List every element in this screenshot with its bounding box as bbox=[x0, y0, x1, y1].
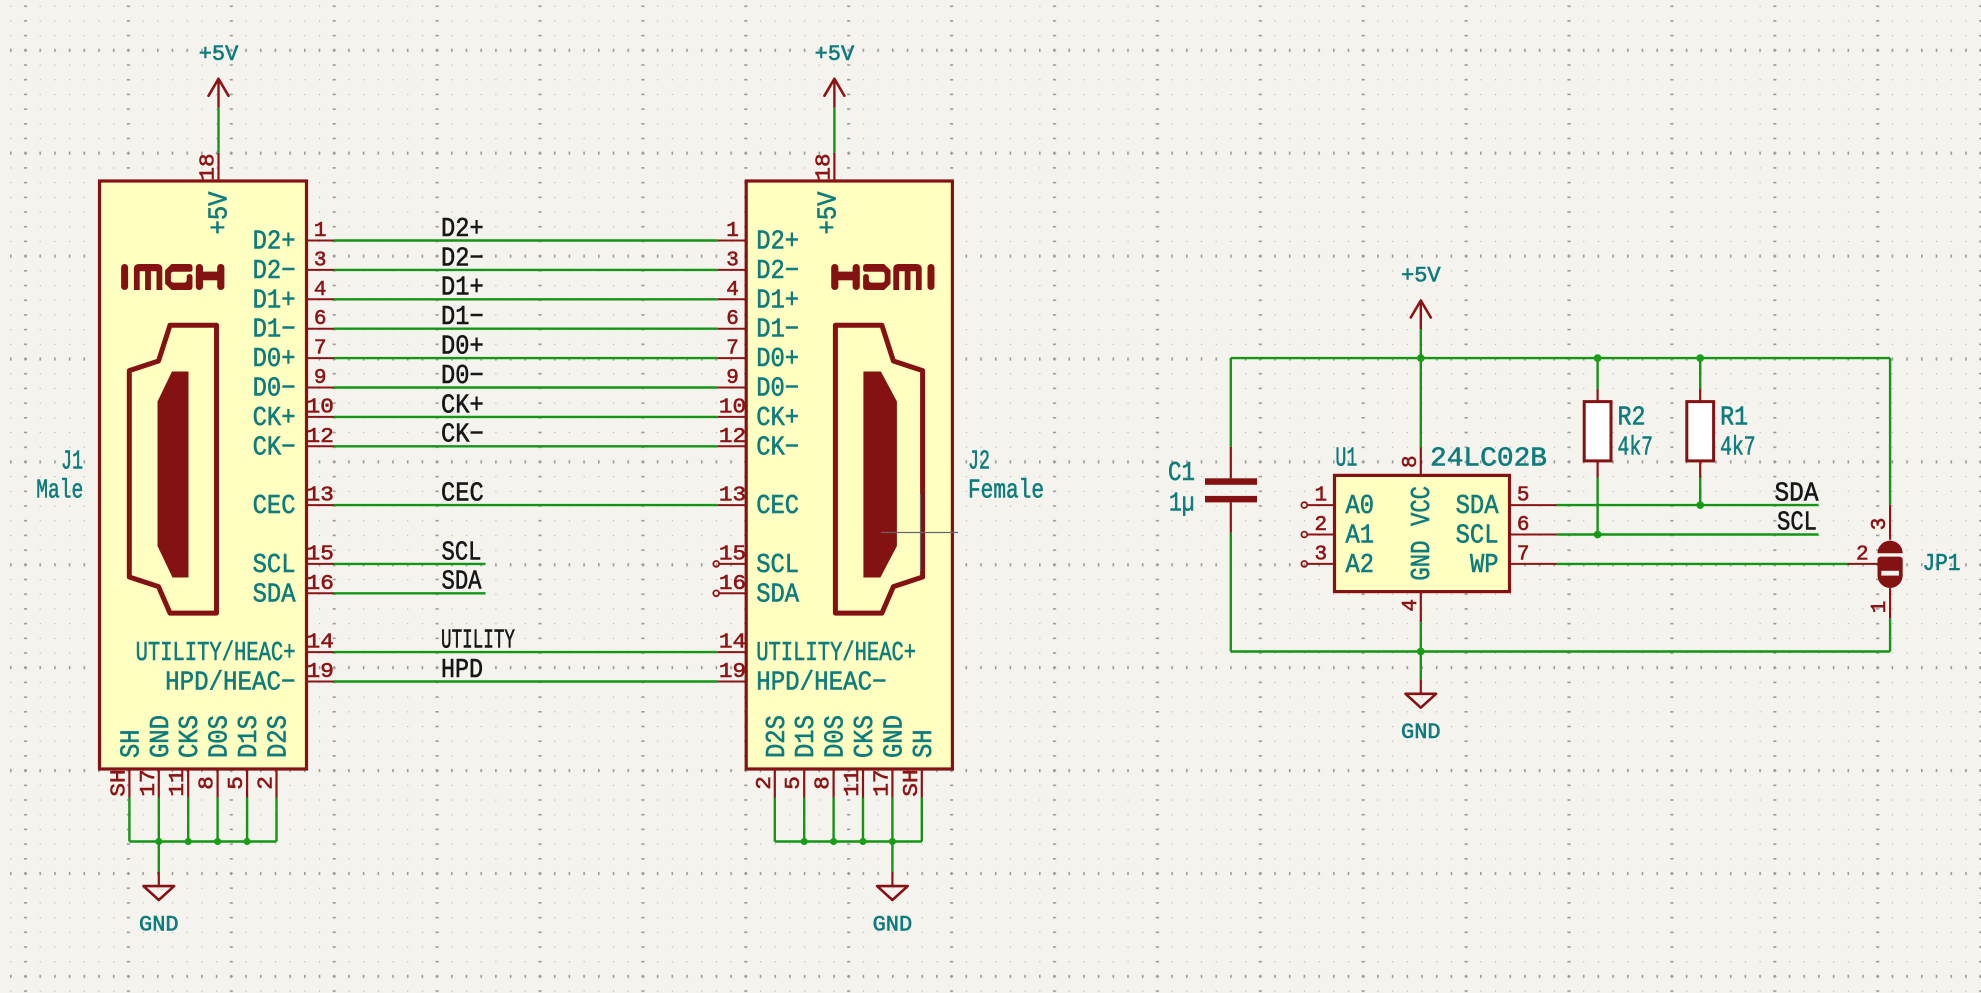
svg-text:Male: Male bbox=[36, 477, 83, 507]
svg-text:SH: SH bbox=[117, 729, 147, 758]
svg-text:15: 15 bbox=[307, 543, 334, 566]
svg-text:R2: R2 bbox=[1618, 404, 1646, 434]
svg-text:VCC: VCC bbox=[1408, 486, 1438, 526]
svg-text:CK−: CK− bbox=[253, 433, 296, 463]
svg-text:6: 6 bbox=[1517, 514, 1530, 537]
svg-text:CEC: CEC bbox=[441, 480, 484, 510]
svg-text:5: 5 bbox=[783, 776, 806, 790]
svg-text:C1: C1 bbox=[1168, 459, 1195, 489]
svg-text:D2S: D2S bbox=[265, 715, 295, 758]
svg-text:JP1: JP1 bbox=[1923, 551, 1961, 578]
svg-text:11: 11 bbox=[842, 769, 865, 796]
svg-text:1µ: 1µ bbox=[1169, 490, 1195, 520]
svg-text:D1+: D1+ bbox=[253, 286, 296, 316]
svg-text:5: 5 bbox=[1517, 485, 1530, 508]
svg-text:4: 4 bbox=[726, 279, 739, 302]
svg-text:16: 16 bbox=[307, 573, 334, 596]
svg-text:24LC02B: 24LC02B bbox=[1430, 444, 1547, 474]
svg-text:GND: GND bbox=[1408, 541, 1438, 581]
svg-text:D0−: D0− bbox=[756, 375, 799, 405]
svg-text:WP: WP bbox=[1470, 551, 1499, 581]
svg-text:CEC: CEC bbox=[253, 492, 296, 522]
svg-text:7: 7 bbox=[1517, 543, 1530, 566]
svg-text:13: 13 bbox=[307, 485, 334, 508]
svg-text:4k7: 4k7 bbox=[1720, 433, 1756, 463]
svg-text:SH: SH bbox=[901, 769, 924, 796]
svg-text:SCL: SCL bbox=[1777, 509, 1817, 539]
svg-text:10: 10 bbox=[307, 396, 334, 419]
svg-text:7: 7 bbox=[314, 338, 327, 361]
svg-text:D1−: D1− bbox=[756, 316, 799, 346]
svg-text:3: 3 bbox=[726, 249, 739, 272]
svg-text:+5V: +5V bbox=[814, 191, 844, 235]
svg-text:4: 4 bbox=[314, 279, 327, 302]
svg-text:2: 2 bbox=[1314, 514, 1327, 537]
svg-text:4: 4 bbox=[1400, 599, 1423, 612]
svg-text:D1+: D1+ bbox=[756, 286, 799, 316]
svg-text:SDA: SDA bbox=[756, 580, 800, 610]
svg-text:A1: A1 bbox=[1346, 522, 1375, 552]
svg-text:6: 6 bbox=[314, 308, 327, 331]
svg-text:CK−: CK− bbox=[756, 433, 799, 463]
svg-text:GND: GND bbox=[880, 715, 910, 758]
svg-text:2: 2 bbox=[754, 776, 777, 790]
svg-text:D0−: D0− bbox=[253, 375, 296, 405]
svg-text:HPD/HEAC−: HPD/HEAC− bbox=[165, 669, 295, 699]
svg-text:HPD: HPD bbox=[441, 656, 483, 686]
svg-text:D2−: D2− bbox=[756, 257, 799, 287]
svg-text:HPD/HEAC−: HPD/HEAC− bbox=[756, 669, 886, 699]
svg-text:8: 8 bbox=[813, 776, 836, 790]
svg-text:D2+: D2+ bbox=[441, 215, 484, 245]
svg-text:8: 8 bbox=[197, 776, 220, 790]
svg-text:10: 10 bbox=[719, 396, 746, 419]
svg-text:D0+: D0+ bbox=[441, 333, 484, 363]
svg-text:D2S: D2S bbox=[763, 715, 793, 758]
svg-text:D0+: D0+ bbox=[253, 345, 296, 375]
svg-text:18: 18 bbox=[813, 153, 836, 180]
svg-text:SH: SH bbox=[108, 769, 131, 796]
svg-text:1: 1 bbox=[1314, 485, 1327, 508]
svg-text:17: 17 bbox=[871, 769, 894, 796]
svg-text:2: 2 bbox=[1856, 543, 1869, 566]
svg-text:13: 13 bbox=[719, 485, 746, 508]
svg-text:SH: SH bbox=[910, 729, 940, 758]
svg-text:UTILITY/HEAC+: UTILITY/HEAC+ bbox=[756, 639, 916, 669]
svg-text:D0S: D0S bbox=[206, 715, 236, 758]
svg-text:D0−: D0− bbox=[441, 362, 484, 392]
svg-text:D1S: D1S bbox=[792, 715, 822, 758]
svg-text:D2+: D2+ bbox=[253, 228, 296, 258]
svg-text:+5V: +5V bbox=[206, 191, 236, 235]
svg-text:SCL: SCL bbox=[442, 538, 482, 568]
svg-text:A0: A0 bbox=[1346, 492, 1375, 522]
svg-text:CK+: CK+ bbox=[441, 391, 484, 421]
svg-text:D2+: D2+ bbox=[756, 228, 799, 258]
svg-text:CEC: CEC bbox=[756, 492, 799, 522]
svg-text:GND: GND bbox=[139, 912, 179, 937]
svg-text:14: 14 bbox=[307, 632, 334, 655]
svg-text:UTILITY: UTILITY bbox=[441, 627, 515, 657]
svg-text:19: 19 bbox=[307, 661, 334, 684]
svg-text:D2−: D2− bbox=[441, 244, 484, 274]
svg-text:D1S: D1S bbox=[235, 715, 265, 758]
svg-text:D1+: D1+ bbox=[441, 274, 484, 304]
svg-text:4k7: 4k7 bbox=[1618, 433, 1654, 463]
svg-text:A2: A2 bbox=[1346, 551, 1375, 581]
svg-text:19: 19 bbox=[719, 661, 746, 684]
svg-text:1: 1 bbox=[314, 220, 327, 243]
svg-text:11: 11 bbox=[167, 769, 190, 796]
svg-text:3: 3 bbox=[314, 249, 327, 272]
svg-text:CKS: CKS bbox=[176, 715, 206, 758]
svg-text:7: 7 bbox=[726, 338, 739, 361]
svg-text:UTILITY/HEAC+: UTILITY/HEAC+ bbox=[136, 639, 296, 669]
svg-text:D1−: D1− bbox=[253, 316, 296, 346]
svg-text:1: 1 bbox=[726, 220, 739, 243]
svg-text:14: 14 bbox=[719, 632, 746, 655]
svg-text:+5V: +5V bbox=[199, 42, 239, 67]
svg-text:8: 8 bbox=[1400, 455, 1423, 468]
svg-text:CK−: CK− bbox=[441, 421, 484, 451]
svg-text:3: 3 bbox=[1314, 543, 1327, 566]
svg-text:6: 6 bbox=[726, 308, 739, 331]
svg-text:D1−: D1− bbox=[441, 303, 484, 333]
svg-text:9: 9 bbox=[726, 367, 739, 390]
svg-text:18: 18 bbox=[198, 153, 221, 180]
svg-text:SCL: SCL bbox=[1456, 522, 1499, 552]
svg-text:12: 12 bbox=[719, 426, 746, 449]
svg-text:GND: GND bbox=[147, 715, 177, 758]
svg-text:SDA: SDA bbox=[1775, 479, 1820, 509]
svg-text:U1: U1 bbox=[1335, 444, 1357, 474]
svg-text:SDA: SDA bbox=[442, 568, 483, 598]
svg-text:D2−: D2− bbox=[253, 257, 296, 287]
svg-text:J1: J1 bbox=[61, 448, 83, 478]
svg-text:SCL: SCL bbox=[756, 551, 799, 581]
svg-text:5: 5 bbox=[226, 776, 249, 790]
svg-text:CK+: CK+ bbox=[756, 404, 799, 434]
svg-text:J2: J2 bbox=[968, 448, 990, 478]
svg-text:12: 12 bbox=[307, 426, 334, 449]
svg-text:SDA: SDA bbox=[253, 580, 297, 610]
svg-text:+5V: +5V bbox=[1401, 264, 1441, 289]
svg-text:CK+: CK+ bbox=[253, 404, 296, 434]
svg-text:2: 2 bbox=[256, 776, 279, 790]
svg-text:D0S: D0S bbox=[822, 715, 852, 758]
svg-text:GND: GND bbox=[1401, 720, 1441, 745]
svg-text:1: 1 bbox=[1869, 601, 1892, 614]
svg-text:9: 9 bbox=[314, 367, 327, 390]
svg-text:SCL: SCL bbox=[253, 551, 296, 581]
svg-text:17: 17 bbox=[138, 769, 161, 796]
svg-text:Female: Female bbox=[968, 477, 1044, 507]
svg-text:D0+: D0+ bbox=[756, 345, 799, 375]
svg-text:3: 3 bbox=[1869, 518, 1892, 531]
svg-text:R1: R1 bbox=[1720, 404, 1748, 434]
svg-text:GND: GND bbox=[873, 912, 913, 937]
svg-text:SDA: SDA bbox=[1456, 492, 1500, 522]
svg-text:+5V: +5V bbox=[815, 42, 855, 67]
svg-text:CKS: CKS bbox=[851, 715, 881, 758]
